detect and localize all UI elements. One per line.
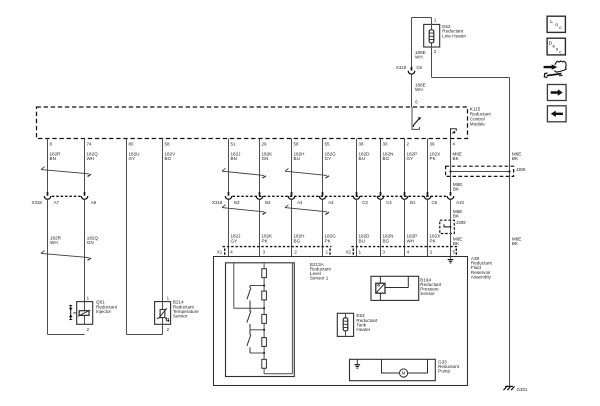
heater E53 Reductant Tank Heater xyxy=(337,313,378,336)
svg-text:GY: GY xyxy=(325,156,332,161)
wire 182N BG from X318 C4 to X2 xyxy=(381,199,394,256)
reed switch S3 xyxy=(247,330,251,353)
wire 182K GN from K115 pin 29 xyxy=(260,139,274,192)
svg-text:Assembly: Assembly xyxy=(471,274,492,279)
K115 internal driver symbol at pin 6 xyxy=(412,100,421,130)
svg-text:X318: X318 xyxy=(32,200,43,205)
toolbar icon DESC xyxy=(547,38,565,55)
wire label 186E WH (above C6) xyxy=(415,50,426,60)
wire 182G PK from X318 A3 to X1 xyxy=(323,199,337,256)
twisted pair marker 182J/182K (above X318) xyxy=(222,168,266,178)
svg-text:2: 2 xyxy=(430,249,433,254)
svg-text:X2: X2 xyxy=(346,249,352,254)
svg-text:WH: WH xyxy=(415,87,423,92)
svg-text:Heater: Heater xyxy=(356,327,370,332)
svg-text:PK: PK xyxy=(325,238,332,243)
K115 pin 8 xyxy=(50,141,53,146)
wire label M6E BK (right, upper) xyxy=(512,152,521,162)
K115 pin 39 xyxy=(430,141,435,146)
wire 182D BU from X318 C3 to X2 xyxy=(357,199,371,256)
svg-text:X318: X318 xyxy=(396,65,407,70)
wire B214 pin2 loop xyxy=(127,334,163,336)
wire 182H BU from K115 pin 58 xyxy=(292,139,305,192)
svg-text:X318: X318 xyxy=(212,200,223,205)
wire 186E WH C6 to K115 pin 6 xyxy=(412,74,426,107)
connector X318 B4 xyxy=(256,192,271,205)
svg-text:BK: BK xyxy=(453,213,460,218)
svg-text:D: D xyxy=(549,41,552,46)
svg-text:BK: BK xyxy=(453,187,460,192)
connector X318 A7 xyxy=(32,192,60,205)
svg-text:1: 1 xyxy=(326,249,329,254)
connector X318 C5 xyxy=(424,192,437,205)
svg-text:1: 1 xyxy=(359,249,362,254)
K115 pin 58 xyxy=(294,141,299,146)
B213A pin 4 riser wire xyxy=(234,263,264,309)
svg-text:3: 3 xyxy=(263,249,266,254)
twisted pair marker 182J/182K (below X318) xyxy=(222,205,266,215)
B213A resistor chain wire xyxy=(264,263,292,374)
toolbar icon diagnostic hand/wrench xyxy=(544,61,567,78)
assembly A39 Reductant Fluid Reservoir Assembly xyxy=(214,256,493,385)
K115 pin 38 xyxy=(359,141,364,146)
svg-text:Injector: Injector xyxy=(96,309,112,314)
K115 pin 80 xyxy=(129,141,134,146)
svg-text:4: 4 xyxy=(407,249,410,254)
svg-text:BK: BK xyxy=(453,241,460,246)
svg-text:Line Heater: Line Heater xyxy=(442,33,466,38)
svg-text:GY: GY xyxy=(129,156,136,161)
svg-text:BU: BU xyxy=(359,238,365,243)
wire 182G GY from K115 pin 55 xyxy=(323,139,337,192)
K115 pin 58 xyxy=(165,141,170,146)
svg-text:A7: A7 xyxy=(54,200,60,205)
wire M6E BK from K115 pin 4 xyxy=(451,139,462,167)
svg-text:C5: C5 xyxy=(432,200,438,205)
wire 182Q WH from K115 pin 74 xyxy=(85,139,99,192)
svg-text:WH: WH xyxy=(50,240,58,245)
K115 pin 55 xyxy=(325,141,330,146)
wire 182K PK from X318 B4 to X1 xyxy=(260,199,274,256)
twisted pair marker 182R/182Q (below X318) xyxy=(41,251,91,261)
svg-text:c: c xyxy=(559,26,562,31)
K115 pin 30 xyxy=(383,141,388,146)
svg-text:80: 80 xyxy=(129,141,134,146)
svg-text:2: 2 xyxy=(294,249,297,254)
connector X318 A4 xyxy=(288,192,303,205)
svg-text:C4: C4 xyxy=(386,200,392,205)
ground symbol inside A39 (pump ground feed) xyxy=(448,260,454,263)
wire Q61 pin2 loop xyxy=(48,334,85,336)
twisted pair marker 182R/182Q (above X318) xyxy=(41,167,91,177)
svg-text:B1: B1 xyxy=(410,200,416,205)
E52 Reductant Line Heater xyxy=(424,18,467,55)
X318 row dashed link (left) xyxy=(52,195,81,197)
svg-text:1: 1 xyxy=(167,295,170,300)
injector Q61 Reductant Injector xyxy=(69,295,118,332)
svg-text:B4: B4 xyxy=(265,200,271,205)
K115 internal connection symbol at pin 4 xyxy=(451,129,457,139)
node tap 3 xyxy=(250,329,265,331)
X318 label (middle row) xyxy=(212,200,223,205)
svg-text:BK: BK xyxy=(512,241,519,246)
connector X318 B1 xyxy=(401,192,416,205)
svg-text:BU: BU xyxy=(294,156,300,161)
reed switch S2 xyxy=(247,308,251,330)
svg-text:BG: BG xyxy=(165,156,172,161)
svg-text:5: 5 xyxy=(453,249,456,254)
wire 182D BU from K115 pin 38 xyxy=(357,139,371,192)
svg-text:L: L xyxy=(550,19,553,25)
svg-text:PK: PK xyxy=(430,156,437,161)
svg-text:J308: J308 xyxy=(516,167,526,172)
sensor B214 Reductant Temperature Sensor xyxy=(155,295,200,332)
resistor R5 xyxy=(262,359,267,368)
wire 182H BG from X318 A4 to X1 xyxy=(292,199,305,256)
svg-text:30: 30 xyxy=(383,141,388,146)
connector X318 A10 xyxy=(447,192,464,205)
wire 182U GY from K115 pin 80 xyxy=(127,139,140,335)
wire 182P WH from X318 B1 to X2 xyxy=(405,199,418,256)
svg-text:BG: BG xyxy=(383,238,390,243)
svg-text:BK: BK xyxy=(453,156,460,161)
toolbar icon previous arrow xyxy=(547,106,566,122)
module K115 Reductant Control Module (dashed outline) xyxy=(37,106,492,138)
svg-text:M: M xyxy=(402,371,406,376)
svg-text:2: 2 xyxy=(167,327,170,332)
svg-text:A6: A6 xyxy=(91,200,97,205)
wire 182Q GN (A6 to Q61 pin1) xyxy=(85,199,99,301)
svg-text:4: 4 xyxy=(230,249,233,254)
svg-text:2: 2 xyxy=(407,141,410,146)
svg-text:C6: C6 xyxy=(416,65,422,70)
svg-text:BN: BN xyxy=(50,156,56,161)
svg-text:58: 58 xyxy=(165,141,170,146)
svg-text:Sensor: Sensor xyxy=(420,291,435,296)
splice J309 xyxy=(440,220,466,234)
svg-text:2: 2 xyxy=(87,327,90,332)
wire M6E BK X318 A10 to J309 xyxy=(451,199,463,220)
sensor B194 Reductant Pressure Sensor xyxy=(371,276,442,300)
svg-text:BK: BK xyxy=(512,156,519,161)
wire 182R WH (A7 to Q61) xyxy=(48,199,62,334)
svg-text:GN: GN xyxy=(262,156,269,161)
wire label M6E BK (right, lower) xyxy=(512,236,521,246)
connector X318 C3 xyxy=(353,192,368,205)
K115 pin 74 xyxy=(87,141,92,146)
svg-text:BG: BG xyxy=(294,238,301,243)
connector X318 C6 xyxy=(396,65,423,74)
svg-text:8: 8 xyxy=(50,141,53,146)
svg-text:6: 6 xyxy=(415,100,418,105)
pump G33 Reductant Pump xyxy=(350,359,460,380)
svg-text:o: o xyxy=(555,23,558,28)
wire 182V BG from K115 pin 58 xyxy=(163,139,177,335)
svg-text:3: 3 xyxy=(383,249,386,254)
sensor B213A Reductant Level Sensor 1 (box) xyxy=(226,262,332,377)
connector X318 B3 xyxy=(225,192,240,205)
svg-text:55: 55 xyxy=(325,141,330,146)
wire E52 pin1 to X318 C6 xyxy=(412,18,432,67)
twisted pair marker 182H/182G (above X318) xyxy=(285,168,329,178)
resistor R3 xyxy=(262,314,267,323)
svg-text:4: 4 xyxy=(453,141,456,146)
svg-text:GY: GY xyxy=(231,238,238,243)
svg-text:C3: C3 xyxy=(362,200,368,205)
svg-text:J309: J309 xyxy=(456,220,466,225)
toolbar icon next arrow xyxy=(547,85,566,101)
svg-text:51: 51 xyxy=(231,141,236,146)
svg-text:29: 29 xyxy=(262,141,267,146)
connector X318 A6 xyxy=(81,192,97,205)
wire 182X PK from K115 pin 39 xyxy=(428,139,441,192)
svg-text:GN: GN xyxy=(87,240,94,245)
svg-text:G301: G301 xyxy=(517,387,528,392)
svg-text:Sensor: Sensor xyxy=(173,314,188,319)
svg-text:2: 2 xyxy=(434,49,437,54)
node tap 2 xyxy=(263,307,265,309)
node tap 4 xyxy=(250,352,265,354)
svg-text:A4: A4 xyxy=(297,200,303,205)
svg-text:1: 1 xyxy=(87,295,90,300)
K115 pin 4 xyxy=(453,141,456,146)
wire 182R BN from K115 pin 8 xyxy=(48,139,62,192)
svg-text:BN: BN xyxy=(231,156,237,161)
svg-text:B3: B3 xyxy=(234,200,240,205)
node tap 1 xyxy=(250,285,265,287)
K115 pin 2 xyxy=(407,141,410,146)
wire M6E BK J309 to X2 pin 5 xyxy=(451,234,463,259)
resistor R4 xyxy=(262,338,267,347)
resistor R1 xyxy=(262,269,267,278)
svg-text:74: 74 xyxy=(87,141,92,146)
wire 182J BN from K115 pin 51 xyxy=(229,139,241,192)
K115 pin 51 xyxy=(231,141,236,146)
twisted pair marker 182H/182G (below X318) xyxy=(285,205,329,215)
svg-text:Sensor 1: Sensor 1 xyxy=(310,276,329,281)
svg-text:Pump: Pump xyxy=(438,369,450,374)
svg-text:PK: PK xyxy=(430,238,437,243)
svg-text:WH: WH xyxy=(415,54,423,59)
svg-text:c: c xyxy=(559,49,562,54)
wire 182N BG from K115 pin 30 xyxy=(381,139,394,192)
X318 row dashed link (middle) xyxy=(233,195,447,197)
splice pack J308 xyxy=(446,166,526,176)
wire 182X PK from X318 C5 to X2 xyxy=(428,199,441,256)
svg-text:38: 38 xyxy=(359,141,364,146)
wire M6E BK J308 to X318 A10 xyxy=(451,176,463,192)
connector X318 C4 xyxy=(377,192,392,205)
svg-text:X1: X1 xyxy=(217,249,223,254)
svg-text:PK: PK xyxy=(262,238,269,243)
svg-text:WH: WH xyxy=(407,238,415,243)
svg-text:58: 58 xyxy=(294,141,299,146)
connector X2 row xyxy=(346,247,458,255)
wire 182P GY from K115 pin 2 xyxy=(405,139,418,192)
svg-text:A10: A10 xyxy=(456,200,464,205)
svg-text:Module: Module xyxy=(470,121,486,126)
svg-text:BG: BG xyxy=(383,156,390,161)
connector X1 row xyxy=(217,247,332,255)
wire E52 pin2 to G301 (M6E BK) xyxy=(432,47,510,386)
connector X318 A3 xyxy=(319,192,334,205)
svg-text:A3: A3 xyxy=(328,200,334,205)
svg-text:GY: GY xyxy=(407,156,414,161)
svg-text:1: 1 xyxy=(434,18,437,23)
wire 182J GY from X318 B3 to X1 xyxy=(229,199,241,256)
ground G301 xyxy=(504,386,528,391)
svg-text:39: 39 xyxy=(430,141,435,146)
svg-text:BU: BU xyxy=(359,156,365,161)
K115 pin 29 xyxy=(262,141,267,146)
toolbar icon LOC xyxy=(547,16,565,32)
resistor R2 xyxy=(262,291,267,300)
reed switch S1 xyxy=(247,286,251,309)
svg-text:WH: WH xyxy=(87,156,95,161)
